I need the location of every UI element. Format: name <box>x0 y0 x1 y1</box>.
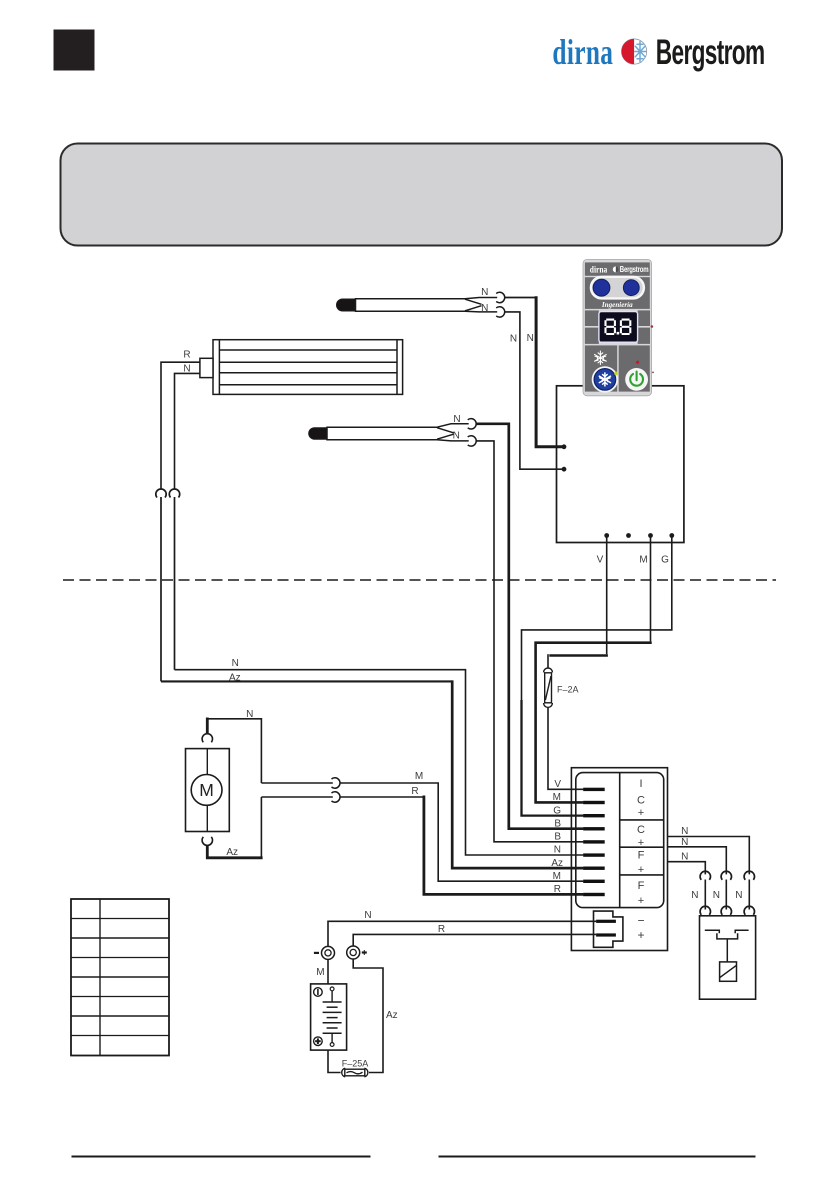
svg-text:C: C <box>637 824 645 836</box>
svg-text:−: − <box>637 914 644 928</box>
pin N <box>583 853 605 856</box>
svg-text:N: N <box>510 334 517 345</box>
svg-text:N: N <box>364 910 371 921</box>
pin G <box>583 814 605 817</box>
svg-text:V: V <box>554 779 561 790</box>
break connector on N wire <box>169 489 179 670</box>
svg-text:Bergstrom: Bergstrom <box>620 264 649 274</box>
wire N relay 2 <box>668 847 727 875</box>
svg-text:M: M <box>316 967 324 978</box>
svg-text:F: F <box>638 880 645 892</box>
label N riser 3 <box>735 890 742 901</box>
wire G from box to pin G <box>522 536 672 816</box>
wire N to connector pin N <box>175 670 584 855</box>
svg-text:M: M <box>553 871 561 882</box>
node dot V output <box>604 533 609 538</box>
svg-text:G: G <box>661 555 669 566</box>
relay coil <box>720 962 737 981</box>
wire probe B1 b to box <box>504 312 564 469</box>
label N relay wire 1 <box>681 826 688 837</box>
node dot M output <box>648 533 653 538</box>
svg-text:M: M <box>199 780 214 800</box>
label plus <box>637 928 644 942</box>
temperature probe B1 (upper) <box>337 298 498 312</box>
break connectors on relay wires top <box>700 871 754 880</box>
svg-text:R: R <box>183 350 190 361</box>
label V <box>597 555 604 566</box>
svg-text:F–25A: F–25A <box>342 1059 369 1069</box>
svg-text:N: N <box>453 430 460 441</box>
wire N relay 1 <box>668 837 750 875</box>
svg-text:Ingeniería: Ingeniería <box>601 301 633 309</box>
wire M from box to pin M (thick) <box>536 536 652 803</box>
wire probe B2 b to pin B <box>476 441 584 842</box>
label N lower feed <box>232 658 239 669</box>
pin R <box>583 893 605 896</box>
break connector probe B2 wire b <box>468 436 477 446</box>
pin labels V M G B B N Az M R <box>551 779 563 895</box>
svg-text:C: C <box>637 795 645 807</box>
terminal plus <box>347 946 367 959</box>
label N riser 1 <box>691 890 698 901</box>
svg-text:V: V <box>597 555 604 566</box>
node dot G output <box>669 533 674 538</box>
wire probe B2 a to pin B (thick) <box>476 424 584 829</box>
svg-text:N: N <box>554 845 561 856</box>
node dot sensor input 2 <box>562 467 567 472</box>
label M wire <box>415 771 423 782</box>
break connector probe B1 wire b <box>496 307 505 317</box>
battery G1 <box>311 984 347 1050</box>
svg-text:F–2A: F–2A <box>557 685 579 695</box>
label N riser a <box>510 334 517 345</box>
label R battery wire <box>438 924 445 935</box>
power tab connector <box>594 911 623 947</box>
bottom rule right <box>439 1156 756 1158</box>
wire minus terminal to battery <box>327 959 329 984</box>
label Az motor <box>226 847 238 858</box>
label minus <box>637 914 644 928</box>
svg-text:dirna: dirna <box>590 263 608 274</box>
label M motor <box>199 780 214 800</box>
label G <box>661 555 669 566</box>
function labels I C + C + F + F + <box>637 778 645 907</box>
label F-2A <box>557 685 579 695</box>
wire M motor to break <box>261 782 332 784</box>
wire probe B1 a to box (thick) <box>504 296 564 447</box>
svg-text:+: + <box>638 807 644 819</box>
svg-text:N: N <box>453 414 460 425</box>
label N probe B1 a <box>481 287 488 298</box>
break connector probe B1 wire a <box>496 292 505 302</box>
empty title rounded box <box>61 144 783 246</box>
break connector on R wire <box>156 489 166 681</box>
pin minus <box>596 920 616 923</box>
node dot sensor input 1 <box>562 444 567 449</box>
black header square <box>54 30 95 71</box>
svg-text:R: R <box>554 884 561 895</box>
svg-text:Az: Az <box>226 847 238 858</box>
label F-25A <box>342 1059 369 1069</box>
fuse F-25A <box>342 1068 368 1077</box>
label N probe B2 b <box>453 430 460 441</box>
break connectors at relay box <box>700 906 754 915</box>
wire R from heater <box>161 362 200 489</box>
svg-text:N: N <box>232 658 239 669</box>
label N relay wire 3 <box>681 852 688 863</box>
relay K1 box <box>700 916 756 999</box>
wire N battery to tab minus <box>328 921 596 946</box>
svg-text:N: N <box>691 890 698 901</box>
control panel front <box>583 259 654 395</box>
wire Az to connector pin Az <box>161 680 583 868</box>
wire N from heater <box>175 373 200 489</box>
svg-text:Bergstrom: Bergstrom <box>656 33 765 72</box>
label N riser b <box>527 333 534 344</box>
wire motor top N <box>202 718 261 784</box>
svg-text:Az: Az <box>386 1010 398 1021</box>
pin M2 <box>583 880 605 883</box>
bottom rule left <box>72 1156 371 1158</box>
label N battery wire <box>364 910 371 921</box>
svg-text:M: M <box>553 792 561 803</box>
relay riser wires <box>705 880 749 910</box>
label Az battery wire <box>386 1010 398 1021</box>
label N riser 2 <box>713 890 720 901</box>
svg-text:N: N <box>735 890 742 901</box>
wire motor bottom Az <box>202 797 263 858</box>
wire M to pin M <box>340 783 584 881</box>
svg-text:B: B <box>554 818 561 829</box>
svg-text:+: + <box>638 864 644 876</box>
wire battery to fuse F-25A <box>328 1050 341 1072</box>
fuse F-2A <box>544 668 553 707</box>
svg-text:+: + <box>638 837 644 849</box>
dirna Bergstrom logo <box>552 32 764 73</box>
wire R to pin R (thick lower run) <box>340 796 584 895</box>
label Az lower feed <box>229 672 241 683</box>
svg-text:N: N <box>713 890 720 901</box>
svg-text:N: N <box>681 826 688 837</box>
svg-text:R: R <box>438 924 445 935</box>
pin V <box>583 788 605 791</box>
node dot unused output <box>626 533 631 538</box>
wire R battery to tab plus <box>353 934 596 946</box>
pin Az <box>583 867 605 870</box>
terminal minus <box>314 946 335 959</box>
label M <box>639 555 647 566</box>
break connector M motor wire <box>332 778 341 788</box>
pin B <box>583 827 605 830</box>
svg-text:N: N <box>681 852 688 863</box>
label M battery <box>316 967 324 978</box>
svg-text:Az: Az <box>551 858 563 869</box>
dashed separator line <box>63 579 776 581</box>
svg-text:I: I <box>639 778 642 790</box>
label N heater wire <box>183 364 190 375</box>
svg-text:R: R <box>411 786 418 797</box>
break connector probe B2 wire a <box>468 419 477 429</box>
wire V from box through fuse to pin V <box>548 536 608 790</box>
label N probe B2 a <box>453 414 460 425</box>
svg-text:N: N <box>481 287 488 298</box>
svg-text:G: G <box>553 805 561 816</box>
label R heater wire <box>183 350 190 361</box>
svg-text:F: F <box>638 849 645 861</box>
svg-text:N: N <box>481 303 488 314</box>
connector block X1 inner <box>576 773 664 908</box>
svg-text:+: + <box>638 895 644 907</box>
svg-text:M: M <box>639 555 647 566</box>
svg-text:N: N <box>681 837 688 848</box>
temperature probe B2 (lower) <box>309 424 469 441</box>
label R wire <box>411 786 418 797</box>
relay contact symbol <box>705 930 749 962</box>
legend table <box>71 899 169 1056</box>
label N relay wire 2 <box>681 837 688 848</box>
control unit box U1 <box>557 386 684 543</box>
label N probe B1 b <box>481 303 488 314</box>
wire N relay 3 <box>668 862 706 875</box>
svg-text:+: + <box>637 928 644 942</box>
motor M1 <box>186 749 230 832</box>
svg-text:B: B <box>554 832 561 843</box>
pin plus <box>596 933 616 936</box>
heater element E1 (finned) <box>200 340 403 395</box>
label N motor <box>246 709 253 720</box>
pin B2 <box>583 840 605 843</box>
wire Az battery <box>353 959 383 1073</box>
svg-text:N: N <box>527 333 534 344</box>
svg-text:dirna: dirna <box>552 32 613 72</box>
connector block X1 outer <box>571 768 667 951</box>
break connector R motor wire <box>332 792 341 802</box>
svg-text:M: M <box>415 771 423 782</box>
pin M <box>583 801 605 804</box>
svg-text:N: N <box>246 709 253 720</box>
wire R motor to break <box>261 796 332 798</box>
